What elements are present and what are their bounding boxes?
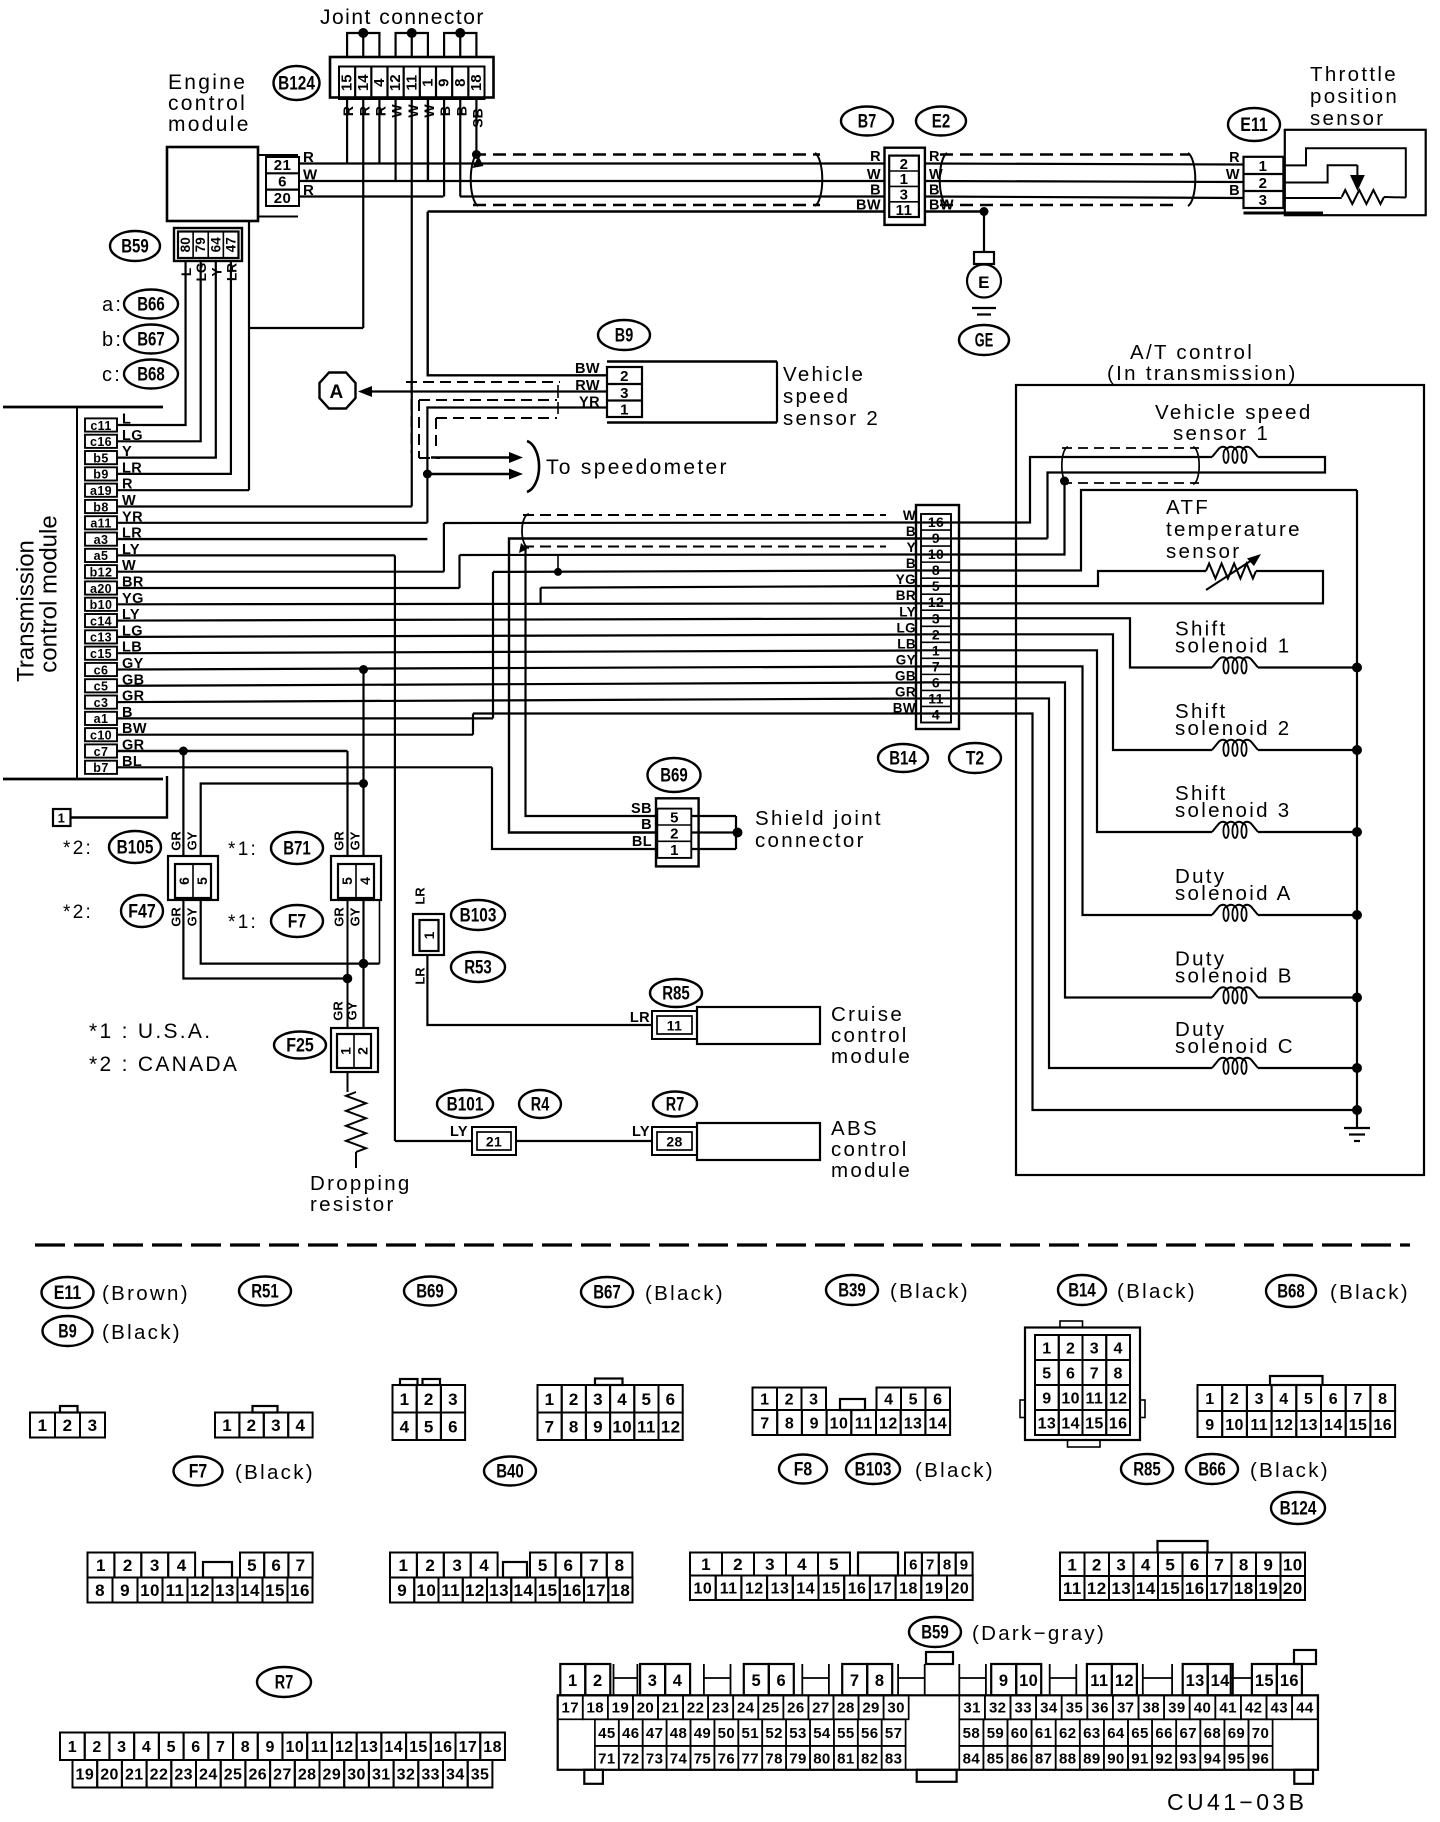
wire B124 pin11 drop long W xyxy=(411,99,413,507)
wire YR a11 xyxy=(117,522,427,524)
R7 oval xyxy=(653,1092,697,1117)
svg-text:SB: SB xyxy=(631,801,652,817)
wire BR a20 xyxy=(117,587,460,589)
svg-text:b12: b12 xyxy=(90,566,113,580)
connector F7 4-pin xyxy=(253,1406,278,1413)
svg-text:56: 56 xyxy=(861,1725,879,1742)
svg-text:6: 6 xyxy=(933,1392,942,1409)
svg-text:13: 13 xyxy=(215,1581,235,1600)
B59 96 U-notch xyxy=(959,1664,986,1695)
svg-text:B68: B68 xyxy=(1277,1281,1305,1303)
svg-text:3: 3 xyxy=(88,1416,98,1435)
svg-text:solenoid 1: solenoid 1 xyxy=(1175,635,1291,658)
GE oval xyxy=(959,325,1009,355)
TPS wire pin3 to resistor xyxy=(1283,197,1341,199)
ECM connector bracket xyxy=(258,154,298,156)
svg-text:26: 26 xyxy=(248,1767,267,1784)
joint connector B124 body xyxy=(330,57,494,98)
svg-text:11: 11 xyxy=(1090,1672,1108,1690)
ECM connector B59 box xyxy=(174,228,242,261)
ground E terminal box xyxy=(974,252,994,264)
svg-text:62: 62 xyxy=(1059,1725,1077,1742)
VSS1 loop right xyxy=(1048,457,1326,539)
wire Y b5 to B59 pin64 xyxy=(117,261,216,458)
svg-text:F7: F7 xyxy=(288,911,306,933)
svg-text:15: 15 xyxy=(1160,1579,1180,1598)
wire B124 pin1 drop xyxy=(427,99,429,181)
svg-text:38: 38 xyxy=(1143,1700,1161,1717)
TCM pin c7 xyxy=(85,744,117,757)
svg-text:60: 60 xyxy=(1011,1725,1029,1742)
TCM pin a20 xyxy=(85,581,117,594)
svg-text:E: E xyxy=(978,273,990,292)
svg-text:6: 6 xyxy=(278,174,287,191)
svg-text:30: 30 xyxy=(887,1700,905,1717)
solenoid solenoid C coil xyxy=(1212,1058,1258,1068)
svg-text:16: 16 xyxy=(1185,1579,1205,1598)
svg-text:8: 8 xyxy=(943,1556,952,1573)
svg-text:25: 25 xyxy=(224,1767,243,1784)
shield right arc xyxy=(815,153,822,206)
svg-text:10: 10 xyxy=(694,1581,713,1598)
svg-text:9: 9 xyxy=(810,1415,819,1432)
wire B124 pin18 SB drop xyxy=(475,99,477,155)
svg-text:9: 9 xyxy=(1205,1417,1214,1434)
svg-text:6: 6 xyxy=(1066,1365,1075,1382)
svg-text:5: 5 xyxy=(424,1417,434,1436)
svg-text:*1 : U.S.A.: *1 : U.S.A. xyxy=(89,1020,212,1043)
svg-text:23: 23 xyxy=(174,1767,193,1784)
connector 20-pin 9+11 xyxy=(690,1553,722,1576)
junction dot xyxy=(358,28,368,38)
ABS pin 28 box xyxy=(652,1127,697,1155)
svg-text:GY: GY xyxy=(345,1001,360,1020)
E2 oval xyxy=(916,107,966,136)
svg-text:10: 10 xyxy=(1061,1390,1080,1407)
junction dot BW ground xyxy=(980,207,989,216)
svg-text:11: 11 xyxy=(1063,1579,1082,1598)
TCM pin b12 xyxy=(85,565,117,578)
B69 joint vertical xyxy=(735,816,737,849)
svg-text:21: 21 xyxy=(486,1134,502,1150)
svg-text:17: 17 xyxy=(873,1581,892,1598)
TCM pin c11 xyxy=(85,418,117,431)
svg-text:42: 42 xyxy=(1245,1700,1263,1717)
svg-text:66: 66 xyxy=(1155,1725,1173,1742)
svg-text:9: 9 xyxy=(265,1739,274,1756)
wire BW B7 right to E ground tap xyxy=(925,210,984,213)
svg-text:c11: c11 xyxy=(90,419,111,433)
svg-text:16: 16 xyxy=(290,1581,310,1600)
svg-text:15: 15 xyxy=(265,1581,285,1600)
svg-text:LB: LB xyxy=(897,636,916,651)
B66 oval xyxy=(1186,1454,1238,1484)
svg-text:34: 34 xyxy=(446,1767,465,1784)
svg-text:83: 83 xyxy=(885,1750,903,1767)
svg-text:R: R xyxy=(1229,150,1240,166)
svg-text:5: 5 xyxy=(339,877,355,885)
solenoid common bus vertical xyxy=(1356,490,1358,1110)
wire GY into B71 pin4 xyxy=(362,784,364,857)
E11 pin box xyxy=(1244,157,1284,208)
svg-text:4: 4 xyxy=(617,1390,627,1409)
svg-text:B: B xyxy=(641,817,652,833)
svg-text:45: 45 xyxy=(598,1725,616,1742)
svg-text:46: 46 xyxy=(622,1725,640,1742)
B59 96 U-notch xyxy=(898,1664,925,1695)
svg-text:(Black): (Black) xyxy=(235,1461,315,1484)
junction dot xyxy=(407,28,417,38)
svg-text:B: B xyxy=(906,524,916,539)
svg-text:96: 96 xyxy=(1252,1750,1270,1767)
svg-text:92: 92 xyxy=(1155,1750,1173,1767)
svg-text:b:: b: xyxy=(102,329,123,351)
wire R ECM20 to B124 pin9 xyxy=(299,195,444,197)
svg-text:64: 64 xyxy=(1107,1725,1125,1742)
svg-text:1: 1 xyxy=(1067,1555,1077,1574)
svg-text:W: W xyxy=(903,508,916,523)
joint staple pins 9-18 xyxy=(444,33,476,57)
svg-text:21: 21 xyxy=(125,1767,144,1784)
svg-text:20: 20 xyxy=(1283,1579,1303,1598)
svg-text:20: 20 xyxy=(274,190,292,207)
svg-text:90: 90 xyxy=(1107,1750,1125,1767)
svg-text:11: 11 xyxy=(855,1415,873,1432)
svg-text:Vehicle speed: Vehicle speed xyxy=(1155,401,1313,424)
svg-text:14: 14 xyxy=(384,1739,403,1756)
svg-text:7: 7 xyxy=(1353,1391,1362,1408)
connector F25 body xyxy=(331,1028,378,1072)
svg-text:7: 7 xyxy=(545,1417,555,1436)
svg-text:87: 87 xyxy=(1035,1750,1053,1767)
svg-text:c:: c: xyxy=(102,364,122,386)
dropping resistor xyxy=(346,1092,366,1152)
solenoid solenoid 3 to bus xyxy=(1258,831,1357,833)
svg-text:7: 7 xyxy=(589,1556,599,1575)
svg-text:1: 1 xyxy=(620,401,629,418)
svg-text:B: B xyxy=(870,183,881,199)
svg-text:28: 28 xyxy=(837,1700,855,1717)
B59 96 U-notch xyxy=(1231,1664,1252,1695)
svg-text:89: 89 xyxy=(1083,1750,1101,1767)
solenoid solenoid C wire from B14 pin 11 xyxy=(920,698,1212,1068)
svg-text:64: 64 xyxy=(208,237,223,253)
connector R85/B66 16-pin xyxy=(1270,1376,1323,1385)
B69 oval xyxy=(648,758,701,792)
svg-text:13: 13 xyxy=(1038,1415,1057,1432)
svg-text:b10: b10 xyxy=(90,598,113,612)
svg-text:33: 33 xyxy=(1015,1700,1033,1717)
svg-text:1: 1 xyxy=(545,1390,555,1409)
svg-text:R7: R7 xyxy=(666,1094,684,1116)
TCM pin c16 xyxy=(85,435,117,448)
engine control module ECM box xyxy=(167,147,258,221)
svg-text:(Black): (Black) xyxy=(1330,1281,1410,1304)
svg-text:17: 17 xyxy=(586,1581,606,1600)
wire B B69 riser to B14 pin9 xyxy=(509,539,920,833)
solenoid solenoid 2 coil xyxy=(1212,740,1258,750)
connector F8/B103 14-pin xyxy=(840,1399,865,1410)
svg-text:1: 1 xyxy=(58,811,66,826)
svg-text:29: 29 xyxy=(862,1700,880,1717)
wire to speedometer arrow 1 xyxy=(431,456,513,458)
svg-text:1: 1 xyxy=(338,1047,354,1055)
B69 connector body xyxy=(656,798,699,866)
speedo outer dashed shield xyxy=(406,381,560,383)
solenoid solenoid B wire from B14 pin 6 xyxy=(920,682,1212,997)
svg-text:*1:: *1: xyxy=(228,839,258,860)
wire RW B9 pin3 to A with arrowhead xyxy=(372,390,607,392)
svg-text:4: 4 xyxy=(400,1417,410,1436)
svg-text:B124: B124 xyxy=(278,73,315,95)
junction dot bus xyxy=(1352,745,1362,755)
svg-text:28: 28 xyxy=(298,1767,317,1784)
svg-text:solenoid B: solenoid B xyxy=(1175,965,1294,988)
svg-text:19: 19 xyxy=(925,1581,944,1598)
junction dot B69 xyxy=(733,828,743,838)
svg-text:7: 7 xyxy=(216,1739,225,1756)
solenoid solenoid A to bus xyxy=(1258,914,1357,916)
connector B59 96-pin outer xyxy=(558,1695,1318,1770)
svg-text:5: 5 xyxy=(641,1390,651,1409)
svg-text:10: 10 xyxy=(612,1417,632,1436)
junction dot bus xyxy=(1352,910,1362,920)
svg-text:35: 35 xyxy=(1066,1700,1084,1717)
shield dashed top B124-B7 xyxy=(473,153,820,155)
B7 oval xyxy=(841,107,893,136)
TPS wire pin2 to wiper xyxy=(1283,165,1357,182)
TCM pin c10 xyxy=(85,728,117,741)
shield entry arrow xyxy=(472,156,483,168)
wire B a1 riser to B14 pin8 xyxy=(493,571,920,572)
svg-text:F47: F47 xyxy=(128,901,156,923)
B103 oval xyxy=(451,900,505,930)
svg-text:76: 76 xyxy=(718,1750,736,1767)
wire B101 to R7 xyxy=(516,1140,652,1142)
svg-text:4: 4 xyxy=(479,1556,489,1575)
svg-text:1: 1 xyxy=(222,1416,232,1435)
svg-text:c5: c5 xyxy=(94,680,109,694)
svg-text:15: 15 xyxy=(1255,1672,1274,1690)
junction dot xyxy=(455,28,465,38)
svg-text:*2:: *2: xyxy=(63,902,93,923)
svg-text:BR: BR xyxy=(896,588,916,603)
B40 oval xyxy=(484,1457,536,1486)
svg-text:12: 12 xyxy=(387,74,404,91)
svg-text:control module: control module xyxy=(36,515,63,672)
svg-text:7: 7 xyxy=(1214,1555,1224,1574)
junction dot GY branch xyxy=(359,665,368,674)
svg-text:(Black): (Black) xyxy=(915,1459,995,1482)
svg-text:15: 15 xyxy=(1349,1417,1368,1434)
TCM pin c13 xyxy=(85,630,117,643)
svg-text:7: 7 xyxy=(850,1672,860,1690)
wire L c11 to B59 pin80 xyxy=(117,261,186,425)
svg-text:37: 37 xyxy=(1117,1700,1135,1717)
svg-text:1: 1 xyxy=(1259,158,1268,175)
svg-text:69: 69 xyxy=(1228,1725,1246,1742)
ECM pin box 21/6/20 xyxy=(266,157,299,206)
TPS resistor xyxy=(1342,190,1384,204)
svg-text:2: 2 xyxy=(424,1390,434,1409)
svg-text:32: 32 xyxy=(397,1767,416,1784)
svg-text:2: 2 xyxy=(733,1555,743,1574)
wire R a19 xyxy=(117,489,249,491)
svg-text:9: 9 xyxy=(436,79,453,87)
B9 pin box xyxy=(607,367,642,417)
TCM pin c6 xyxy=(85,663,117,676)
wire LY a5 to ABS xyxy=(117,554,395,556)
svg-text:1: 1 xyxy=(568,1672,578,1690)
svg-text:6: 6 xyxy=(191,1739,200,1756)
svg-text:80: 80 xyxy=(813,1750,831,1767)
svg-text:R7: R7 xyxy=(275,1672,293,1694)
svg-text:6: 6 xyxy=(909,1556,918,1573)
B68 oval bottom xyxy=(1266,1275,1316,1307)
svg-text:sensor 2: sensor 2 xyxy=(783,407,880,430)
svg-text:11: 11 xyxy=(403,75,420,91)
svg-text:a:: a: xyxy=(102,294,123,316)
wire LG c13 to B14 pin2 xyxy=(117,635,920,637)
wire W b8 to B124 pin11 xyxy=(117,505,412,507)
junction dot GY F25 xyxy=(359,959,369,969)
separator dashed line xyxy=(35,1243,1410,1246)
B14 shield drain arrow xyxy=(519,543,528,553)
wire BW B14 pin4 to ground bus xyxy=(920,714,1357,1111)
svg-text:2: 2 xyxy=(670,826,679,843)
wire to speedometer arrow 2 xyxy=(431,473,513,475)
wire LY c14 to B14 pin3 xyxy=(117,619,920,621)
svg-text:2: 2 xyxy=(593,1672,603,1690)
joint staple pins 12-1 xyxy=(396,33,428,57)
svg-text:61: 61 xyxy=(1035,1725,1053,1742)
connector 1 single-pin box xyxy=(53,809,71,826)
svg-text:YG: YG xyxy=(896,572,916,587)
TCM body left edge xyxy=(76,407,78,779)
svg-text:72: 72 xyxy=(622,1750,640,1767)
svg-text:B: B xyxy=(906,556,916,571)
wire LY a5 long vertical to ABS xyxy=(394,555,396,1141)
TCM pin a11 xyxy=(85,516,117,529)
solenoid solenoid A coil xyxy=(1212,905,1258,915)
svg-text:14: 14 xyxy=(514,1581,534,1600)
svg-text:ATF: ATF xyxy=(1166,496,1210,519)
wire LR b9 to B59 pin47 xyxy=(117,261,231,474)
connector B71/F7 body xyxy=(331,856,381,900)
wire Y B14 pin10 shield drain xyxy=(920,481,1065,555)
wire GY branch c6 down xyxy=(362,670,364,784)
svg-text:17: 17 xyxy=(459,1739,478,1756)
TCM pin c5 xyxy=(85,679,117,692)
R53 oval xyxy=(451,952,505,982)
solenoid solenoid 1 coil xyxy=(1212,657,1258,667)
svg-text:14: 14 xyxy=(355,74,372,91)
wire BR riser a20 to pin10 line xyxy=(458,555,460,588)
svg-text:71: 71 xyxy=(598,1750,616,1767)
svg-text:4: 4 xyxy=(177,1556,187,1575)
wire BW riser c10 to pin4 line xyxy=(472,714,474,735)
wire B124 pin15 drop xyxy=(346,99,348,164)
svg-text:A: A xyxy=(329,382,345,403)
connector 18-pin 8+10 xyxy=(390,1553,417,1578)
svg-text:1: 1 xyxy=(670,842,679,859)
svg-text:6: 6 xyxy=(1329,1391,1338,1408)
svg-text:2: 2 xyxy=(63,1416,73,1435)
dropping resistor wire xyxy=(347,1072,349,1092)
ground E bars xyxy=(972,307,996,309)
wire W shield to B14 pin16 xyxy=(444,521,920,524)
node A octagon xyxy=(320,373,356,409)
F25 oval xyxy=(274,1032,326,1059)
svg-text:R85: R85 xyxy=(1133,1459,1161,1481)
wire GR right branch to B71 xyxy=(346,751,348,856)
wire B124 pin12 drop xyxy=(394,99,396,181)
svg-text:39: 39 xyxy=(1168,1700,1186,1717)
svg-text:a19: a19 xyxy=(90,484,112,498)
B69 right short wires xyxy=(691,815,736,817)
svg-text:B14: B14 xyxy=(889,748,917,770)
wire R B124 pin14 to TCM a19 horizontal xyxy=(249,327,363,329)
svg-text:sensor 1: sensor 1 xyxy=(1173,422,1270,445)
solenoid solenoid 3 coil xyxy=(1212,822,1258,832)
svg-text:solenoid 2: solenoid 2 xyxy=(1175,717,1291,740)
junction dot GR F25 xyxy=(343,974,353,984)
svg-text:3: 3 xyxy=(150,1556,160,1575)
svg-text:2: 2 xyxy=(785,1392,794,1409)
svg-text:12: 12 xyxy=(1109,1390,1128,1407)
TCM pin b10 xyxy=(85,598,117,611)
wire W B7 to E11 xyxy=(925,181,1244,182)
svg-text:49: 49 xyxy=(694,1725,712,1742)
wire BW B9 pin2 xyxy=(428,212,607,376)
svg-text:4: 4 xyxy=(884,1392,893,1409)
svg-text:control: control xyxy=(831,1024,909,1047)
svg-text:11: 11 xyxy=(166,1581,185,1600)
svg-text:3: 3 xyxy=(648,1672,658,1690)
connector B14/T2 body xyxy=(916,505,959,729)
wire GY stub xyxy=(379,900,381,964)
svg-text:8: 8 xyxy=(452,79,469,87)
svg-text:31: 31 xyxy=(372,1767,391,1784)
svg-text:B105: B105 xyxy=(117,837,154,859)
svg-text:c13: c13 xyxy=(90,631,112,645)
svg-text:57: 57 xyxy=(885,1725,903,1742)
svg-text:B69: B69 xyxy=(416,1281,444,1303)
svg-text:4: 4 xyxy=(357,877,373,885)
svg-text:GY: GY xyxy=(348,907,363,926)
junction dot GR xyxy=(179,747,188,756)
svg-text:5: 5 xyxy=(247,1556,257,1575)
svg-text:7: 7 xyxy=(760,1415,769,1432)
B124 oval bottom xyxy=(1271,1492,1325,1524)
svg-text:51: 51 xyxy=(742,1725,760,1742)
svg-text:68: 68 xyxy=(1204,1725,1222,1742)
svg-text:Shield joint: Shield joint xyxy=(755,807,883,830)
B59 96 row 31-44 xyxy=(959,1695,985,1719)
svg-text:GR: GR xyxy=(332,831,347,851)
ground E drop wire xyxy=(983,212,985,253)
svg-text:Dropping: Dropping xyxy=(310,1172,412,1195)
svg-text:18: 18 xyxy=(611,1581,631,1600)
svg-text:LY: LY xyxy=(632,1124,650,1140)
svg-text:2: 2 xyxy=(1066,1340,1075,1357)
svg-text:9: 9 xyxy=(960,1556,969,1573)
B59 96 row 84-96 xyxy=(959,1746,983,1770)
svg-text:17: 17 xyxy=(1209,1579,1229,1598)
svg-text:6: 6 xyxy=(666,1390,676,1409)
svg-text:12: 12 xyxy=(661,1417,681,1436)
svg-text:c10: c10 xyxy=(90,729,112,743)
